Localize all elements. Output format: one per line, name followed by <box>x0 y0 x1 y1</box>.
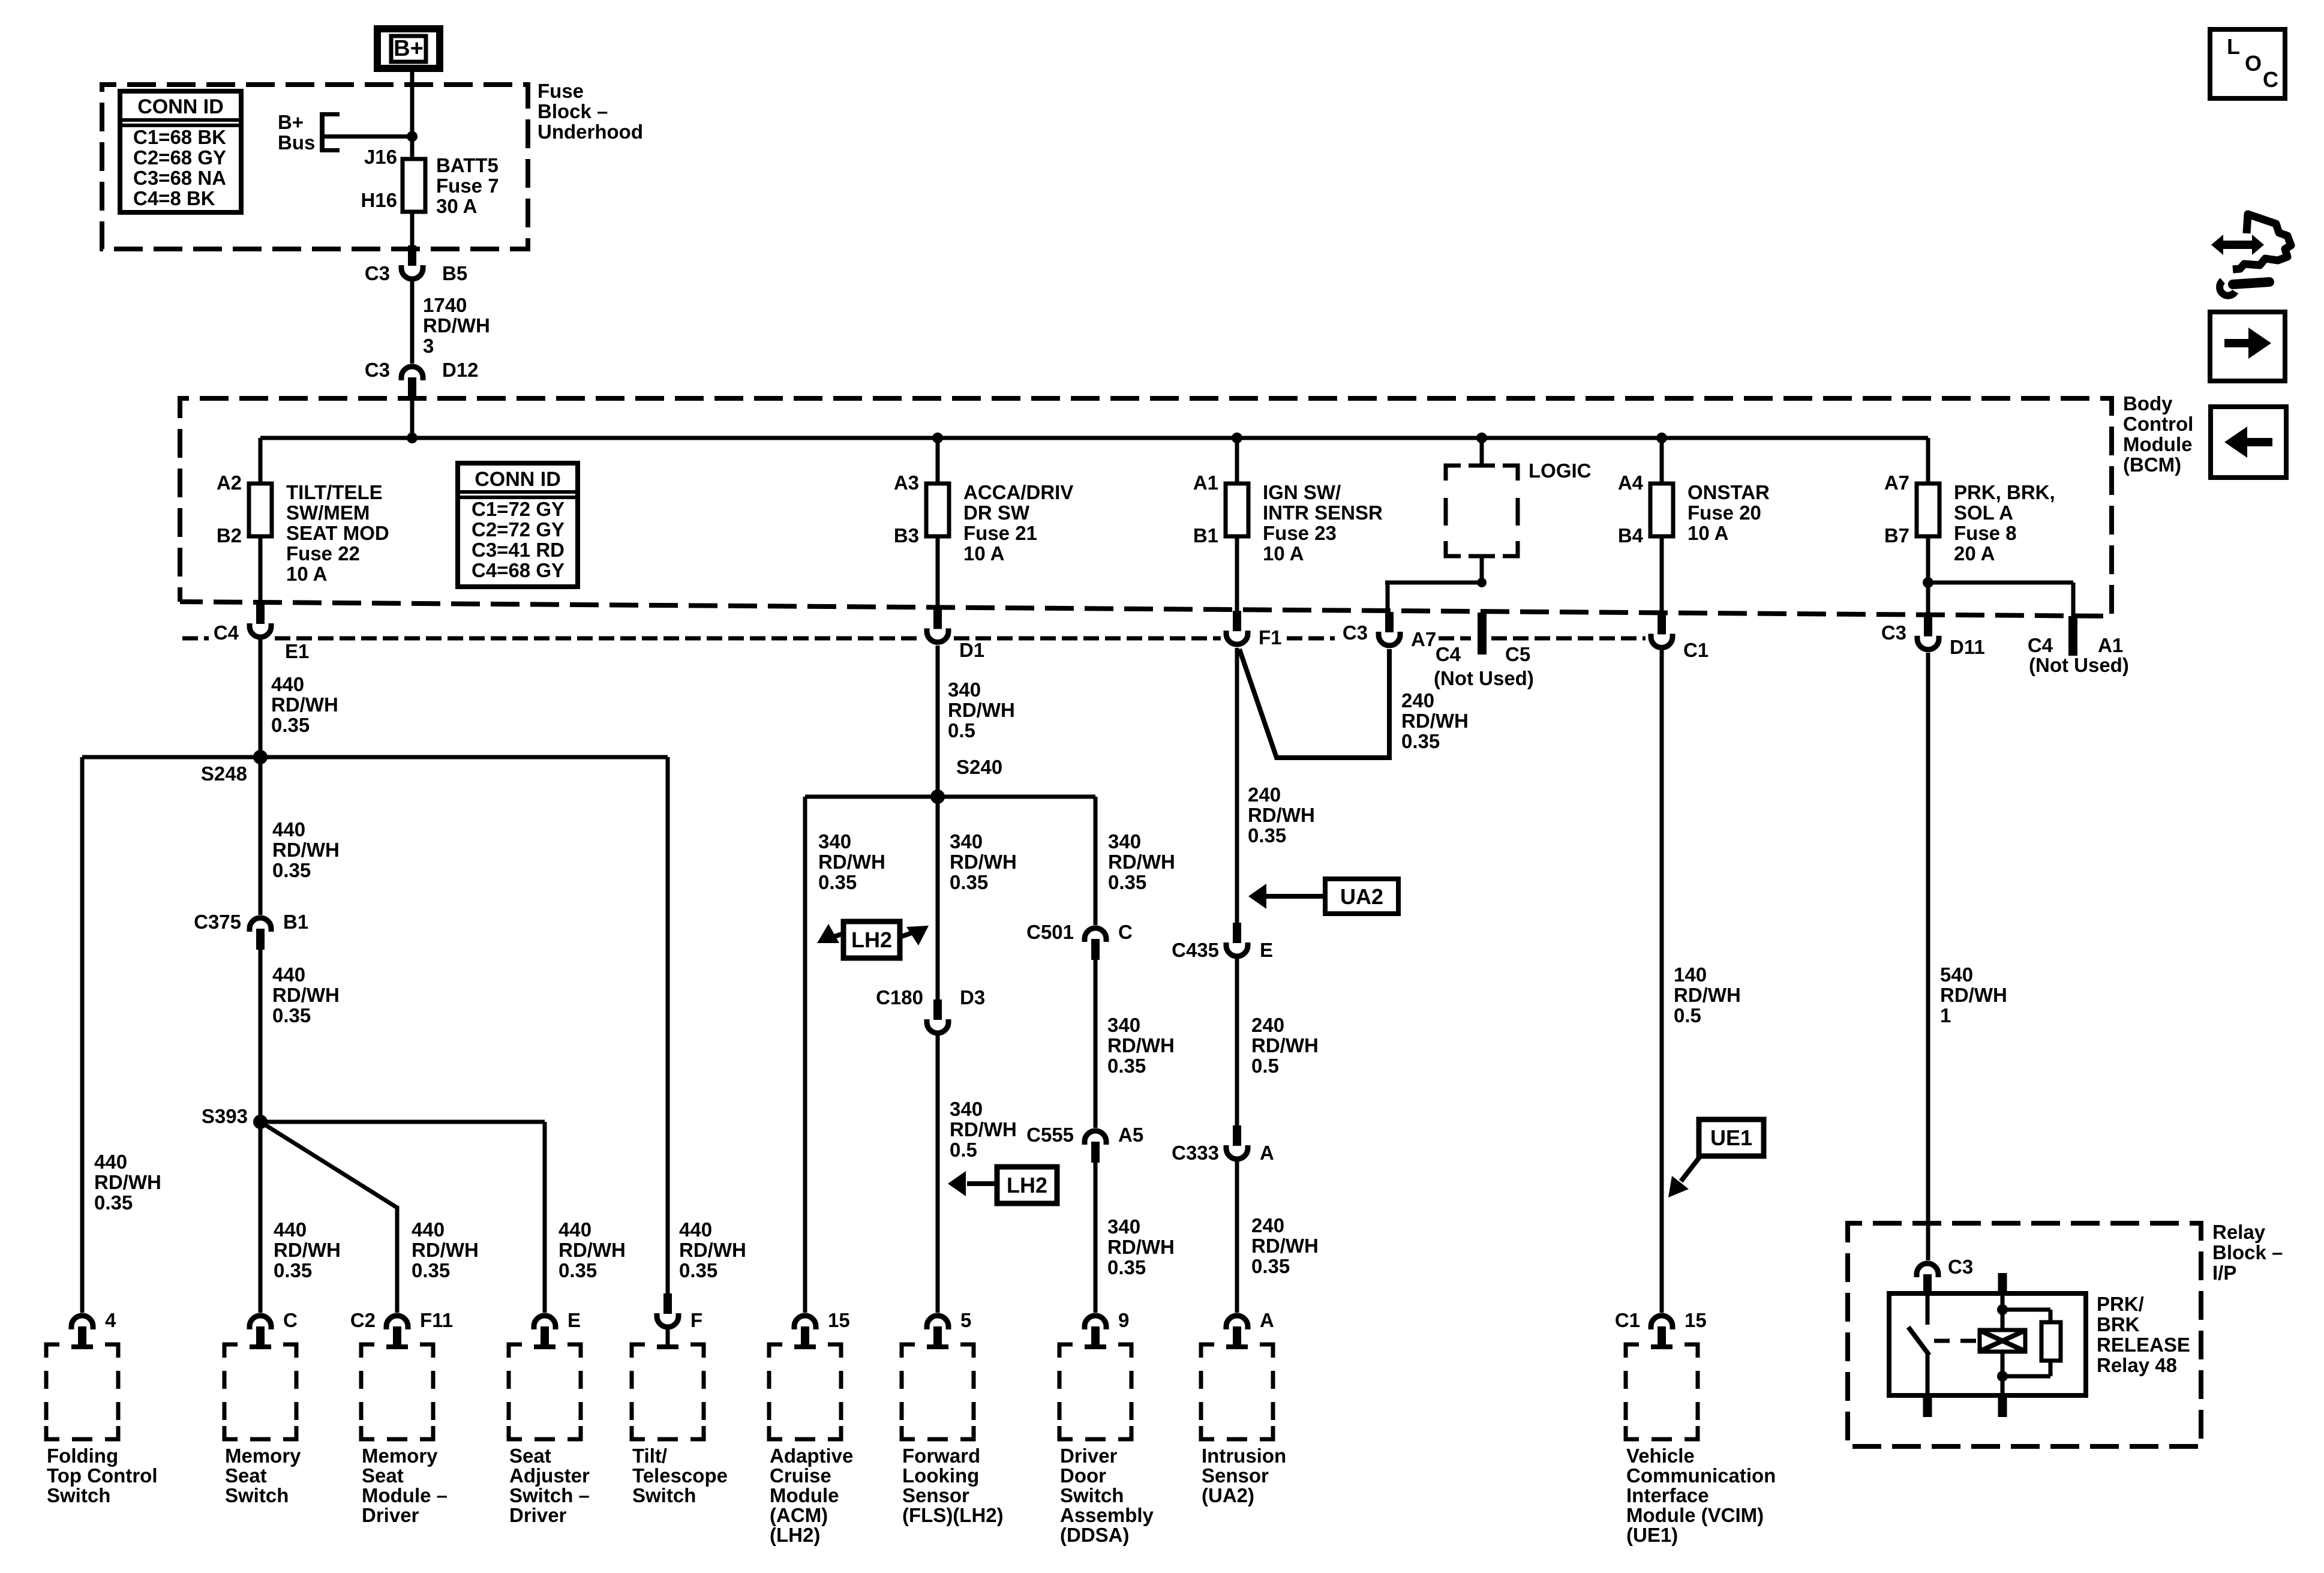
svg-text:340: 340 <box>1108 830 1141 852</box>
svg-text:0.35: 0.35 <box>950 871 988 893</box>
S248 horizontal wire <box>82 755 668 760</box>
BCM label <box>2123 392 2193 476</box>
svg-text:0.35: 0.35 <box>679 1259 717 1281</box>
device box: Intrusion Sensor (UA2) <box>1201 1344 1214 1358</box>
svg-text:Telescope: Telescope <box>632 1464 728 1487</box>
svg-text:J16: J16 <box>364 146 397 168</box>
LH2 arrow to FLS wire <box>967 1181 997 1186</box>
svg-text:0.35: 0.35 <box>412 1259 450 1281</box>
circuit 140 RD/WH 0.5 <box>1674 963 1741 1026</box>
svg-text:ONSTAR: ONSTAR <box>1688 481 1770 503</box>
svg-text:RD/WH: RD/WH <box>818 851 885 873</box>
svg-text:RD/WH: RD/WH <box>1940 984 2007 1006</box>
fuse A3 name label <box>963 481 1073 565</box>
svg-text:C435: C435 <box>1172 939 1219 961</box>
svg-text:C3: C3 <box>365 359 390 381</box>
svg-text:C: C <box>2263 67 2278 92</box>
svg-text:340: 340 <box>1107 1014 1140 1036</box>
svg-text:240: 240 <box>1248 784 1281 806</box>
connector C3 pin B5 <box>401 245 423 279</box>
relay coil junction bottom <box>1997 1371 2008 1382</box>
svg-text:RD/WH: RD/WH <box>1674 984 1741 1006</box>
box top dash under pin <box>71 1344 93 1349</box>
device name: Tilt/ Telescope Switch <box>632 1445 728 1506</box>
svg-text:RD/WH: RD/WH <box>423 314 490 337</box>
connector C333 pin A <box>1226 1125 1248 1159</box>
svg-text:S248: S248 <box>201 763 247 785</box>
svg-text:3: 3 <box>423 335 434 357</box>
svg-text:0.5: 0.5 <box>1674 1004 1701 1026</box>
B+ bus label and tap bracket <box>278 111 340 154</box>
device box: Vehicle Communication Interface Module (VCIM) (UE1) <box>1626 1344 1639 1358</box>
svg-text:RD/WH: RD/WH <box>272 984 340 1006</box>
svg-text:Switch: Switch <box>47 1484 110 1506</box>
wire C435 to C333 <box>1235 959 1239 1127</box>
svg-text:Bus: Bus <box>278 131 315 154</box>
svg-text:(LH2): (LH2) <box>770 1524 820 1546</box>
LH2 destination box (ACM) <box>843 921 900 958</box>
svg-text:RD/WH: RD/WH <box>950 1118 1017 1140</box>
svg-text:H16: H16 <box>361 189 397 211</box>
svg-text:A: A <box>1260 1142 1274 1164</box>
BCM output connector pin C1 <box>1651 614 1673 647</box>
svg-text:C5: C5 <box>1505 643 1530 665</box>
svg-text:Module –: Module – <box>362 1484 448 1506</box>
svg-text:SW/MEM: SW/MEM <box>286 502 370 524</box>
wire B+ bus to fuse <box>322 134 412 139</box>
relay block label <box>2212 1221 2283 1284</box>
svg-text:0.35: 0.35 <box>274 1259 312 1281</box>
svg-text:C333: C333 <box>1172 1142 1219 1164</box>
BCM connector dashed row <box>182 637 209 641</box>
svg-text:RD/WH: RD/WH <box>1251 1034 1319 1056</box>
svg-text:0.35: 0.35 <box>1401 730 1440 752</box>
svg-text:0.35: 0.35 <box>559 1259 597 1281</box>
wire to ACM <box>803 797 807 1313</box>
UA2 arrow <box>1266 894 1325 899</box>
svg-text:340: 340 <box>948 679 981 701</box>
wire fuse B3 down <box>936 536 940 610</box>
device connector pin E (Seat Adjuster Switch – Driver) <box>534 1316 556 1347</box>
device connector pin F (Tilt/ Telescope Switch) <box>657 1293 678 1327</box>
svg-text:B1: B1 <box>1193 524 1218 547</box>
fuse A4 name label <box>1688 481 1770 544</box>
svg-text:440: 440 <box>272 963 305 986</box>
circuit 440 RD/WH 0.35 (S248-C375) <box>272 818 340 881</box>
circuit 240 RD/WH 0.35 (F1) <box>1248 784 1315 846</box>
svg-text:C3: C3 <box>1343 622 1368 644</box>
svg-text:340: 340 <box>1107 1215 1140 1238</box>
svg-text:(Not Used): (Not Used) <box>2029 654 2129 676</box>
B+ battery feed symbol <box>377 29 440 68</box>
svg-text:4: 4 <box>105 1309 116 1331</box>
svg-text:RD/WH: RD/WH <box>1107 1236 1175 1258</box>
svg-text:D3: D3 <box>960 986 985 1008</box>
svg-text:(BCM): (BCM) <box>2123 454 2181 476</box>
svg-text:440: 440 <box>679 1218 712 1241</box>
back arrow box <box>2211 407 2286 478</box>
wire from B+ down <box>410 68 415 159</box>
svg-text:C501: C501 <box>1026 921 1074 943</box>
svg-text:L: L <box>2227 34 2240 59</box>
device connector pin 15 (Adaptive Cruise Module (ACM) (LH2)) <box>794 1316 816 1347</box>
svg-text:C555: C555 <box>1026 1124 1074 1146</box>
fuse block underhood enclosure <box>102 85 528 249</box>
svg-text:C2: C2 <box>350 1309 376 1331</box>
splice S248 <box>253 750 268 764</box>
svg-text:Fuse 22: Fuse 22 <box>286 542 360 565</box>
bus junction dots <box>407 433 418 443</box>
svg-text:B1: B1 <box>283 911 308 933</box>
relay coil column <box>2001 1293 2005 1395</box>
circuit 540 RD/WH 1 <box>1940 963 2007 1026</box>
svg-text:340: 340 <box>818 830 851 852</box>
svg-text:C: C <box>283 1309 298 1331</box>
relay coil link dashes <box>1934 1339 1978 1343</box>
LOC reference box <box>2210 29 2285 98</box>
svg-text:0.35: 0.35 <box>272 1004 311 1026</box>
box top dash under pin <box>927 1344 948 1349</box>
wire F1 down <box>1235 648 1239 924</box>
svg-text:10 A: 10 A <box>963 542 1004 565</box>
circuit 340 RD/WH 0.35 <box>1107 1014 1175 1077</box>
circuit 340 RD/WH 0.35 labels under S240 <box>818 830 885 893</box>
box top dash under pin <box>250 1344 271 1349</box>
relay switch blade <box>1908 1327 1929 1355</box>
svg-text:Seat: Seat <box>225 1464 267 1487</box>
box top dash under pin <box>1226 1344 1248 1349</box>
connector C3 pin D12 <box>401 367 423 398</box>
device connector pin 15 (Vehicle Communication Interface Module (VCIM) (UE1)) <box>1651 1316 1673 1347</box>
wire D1 to S240 <box>936 646 940 797</box>
LH2 left arrow <box>833 933 843 937</box>
device name: Forward Looking Sensor (FLS)(LH2) <box>902 1445 1004 1526</box>
wire bus to fuse A1 <box>1235 438 1239 484</box>
box top dash under pin <box>794 1344 816 1349</box>
svg-text:DR SW: DR SW <box>963 502 1030 524</box>
circuit 1740 RD/WH 3 label <box>423 294 490 357</box>
connector C555 pin A5 <box>1085 1131 1106 1163</box>
svg-text:Communication: Communication <box>1626 1464 1776 1487</box>
vehicle service icon <box>2211 214 2291 296</box>
svg-text:Fuse 7: Fuse 7 <box>436 175 499 197</box>
connector C375 pin B1 <box>250 918 271 950</box>
svg-text:Vehicle: Vehicle <box>1626 1445 1695 1467</box>
UE1 destination box <box>1699 1119 1764 1156</box>
svg-text:Fuse 20: Fuse 20 <box>1688 502 1761 524</box>
svg-text:440: 440 <box>94 1151 127 1173</box>
svg-text:5: 5 <box>960 1309 971 1331</box>
device box: Tilt/ Telescope Switch <box>632 1344 645 1358</box>
svg-text:Assembly: Assembly <box>1060 1504 1154 1526</box>
svg-text:E: E <box>1260 939 1273 961</box>
wire C375 to S393 <box>259 947 263 1122</box>
svg-text:C180: C180 <box>876 986 923 1008</box>
svg-text:C3=68 NA: C3=68 NA <box>133 167 226 189</box>
svg-text:Module: Module <box>2123 433 2192 455</box>
svg-text:Tilt/: Tilt/ <box>632 1445 667 1467</box>
junction on A7 column <box>1923 577 1933 588</box>
svg-text:540: 540 <box>1940 963 1973 986</box>
svg-text:(DDSA): (DDSA) <box>1060 1524 1129 1546</box>
svg-text:C3: C3 <box>1948 1256 1973 1278</box>
device box: Adaptive Cruise Module (ACM) (LH2) <box>769 1344 782 1358</box>
svg-text:C1: C1 <box>1683 639 1709 661</box>
BCM output connector pin D1 <box>927 608 948 642</box>
svg-text:C3: C3 <box>365 262 390 284</box>
circuit 440 RD/WH 0.35 labels <box>274 1218 341 1281</box>
svg-text:Memory: Memory <box>225 1445 301 1467</box>
svg-text:0.35: 0.35 <box>1107 1256 1146 1278</box>
fuse A2 name label <box>286 481 389 585</box>
svg-text:C375: C375 <box>194 911 241 933</box>
LH2 destination box (FLS) <box>997 1167 1057 1203</box>
svg-text:IGN SW/: IGN SW/ <box>1263 481 1341 503</box>
svg-text:Switch: Switch <box>225 1484 289 1506</box>
connector ID table (BCM) <box>458 463 578 587</box>
svg-text:RD/WH: RD/WH <box>412 1239 479 1261</box>
svg-text:10 A: 10 A <box>1263 542 1304 565</box>
svg-text:C4: C4 <box>214 622 239 644</box>
fuse Fuse 22 (TILT/TELE, SW/MEM, SEAT MOD) <box>249 484 272 536</box>
svg-text:15: 15 <box>828 1309 850 1331</box>
svg-text:B7: B7 <box>1884 524 1909 547</box>
device name: Memory Seat Switch <box>225 1445 301 1506</box>
wire F1 diagonal to A7 loop <box>1239 649 1389 758</box>
svg-text:440: 440 <box>274 1218 307 1241</box>
BCM output connector pin A7 <box>1379 612 1400 646</box>
not-used pin stub C5 <box>1478 613 1487 655</box>
svg-text:C4=8 BK: C4=8 BK <box>133 187 215 209</box>
wire fuse B4 down <box>1660 536 1664 615</box>
svg-text:RD/WH: RD/WH <box>274 1239 341 1261</box>
relay switch bottom stub <box>1923 1395 1932 1417</box>
svg-text:A5: A5 <box>1118 1124 1143 1146</box>
svg-text:C2=72 GY: C2=72 GY <box>472 518 565 541</box>
svg-text:B4: B4 <box>1618 524 1644 547</box>
svg-text:Relay 48: Relay 48 <box>2097 1354 2177 1376</box>
svg-text:B+: B+ <box>394 36 424 61</box>
not-used pin stub A1 <box>2068 616 2077 656</box>
svg-text:C1=68 BK: C1=68 BK <box>133 126 226 148</box>
svg-text:Block –: Block – <box>538 100 608 122</box>
device box: Memory Seat Switch <box>224 1344 238 1358</box>
svg-text:Switch: Switch <box>632 1484 696 1506</box>
svg-text:Block –: Block – <box>2212 1241 2283 1263</box>
device connector pin 9 (Driver Door Switch Assembly (DDSA)) <box>1085 1316 1106 1347</box>
svg-text:240: 240 <box>1401 689 1434 712</box>
svg-text:E1: E1 <box>285 640 309 662</box>
svg-text:240: 240 <box>1251 1014 1284 1036</box>
svg-text:Driver: Driver <box>509 1504 567 1526</box>
relay outline <box>1889 1293 2086 1395</box>
relay coil junction top <box>1997 1304 2008 1315</box>
svg-text:340: 340 <box>950 830 983 852</box>
circuit 240 RD/WH 0.35 (A7) <box>1401 689 1469 752</box>
svg-text:RD/WH: RD/WH <box>950 851 1017 873</box>
svg-text:S393: S393 <box>202 1105 248 1127</box>
relay switch top wire <box>1926 1293 1930 1325</box>
svg-text:Adjuster: Adjuster <box>509 1464 590 1487</box>
svg-text:Folding: Folding <box>47 1445 118 1467</box>
wire fuse B7 down <box>1926 536 1930 617</box>
LOGIC block <box>1446 464 1518 559</box>
fuse A1 name label <box>1263 481 1383 565</box>
relay 48 name label <box>2097 1293 2190 1376</box>
box top dash under pin <box>386 1344 408 1349</box>
svg-text:C2=68 GY: C2=68 GY <box>133 146 226 169</box>
device box: Folding Top Control Switch <box>46 1344 59 1358</box>
svg-text:RD/WH: RD/WH <box>94 1171 161 1193</box>
svg-text:(ACM): (ACM) <box>770 1504 828 1526</box>
device name: Vehicle Communication Interface Module (VCIM) (UE1) <box>1626 1445 1776 1546</box>
svg-text:20 A: 20 A <box>1954 542 1995 565</box>
svg-text:TILT/TELE: TILT/TELE <box>286 481 383 503</box>
svg-text:UA2: UA2 <box>1340 884 1383 909</box>
BCM output connector pin D11 <box>1917 616 1939 650</box>
device box: Forward Looking Sensor (FLS)(LH2) <box>902 1344 915 1358</box>
svg-text:RD/WH: RD/WH <box>559 1239 626 1261</box>
splice S393 <box>253 1115 268 1129</box>
Body Control Module enclosure <box>180 398 2112 616</box>
wire C555 down <box>1094 1161 1098 1313</box>
svg-text:Driver: Driver <box>1060 1445 1118 1467</box>
svg-text:10 A: 10 A <box>286 563 327 585</box>
svg-text:Fuse: Fuse <box>538 80 584 102</box>
svg-text:B2: B2 <box>217 524 242 547</box>
wire bus to fuse A2 <box>259 438 263 484</box>
svg-text:440: 440 <box>412 1218 445 1241</box>
svg-text:Door: Door <box>1060 1464 1106 1487</box>
svg-text:Cruise: Cruise <box>770 1464 831 1487</box>
svg-text:S240: S240 <box>956 756 1002 778</box>
forward arrow box <box>2210 312 2285 381</box>
svg-text:A3: A3 <box>894 472 919 494</box>
svg-text:RD/WH: RD/WH <box>679 1239 746 1261</box>
svg-text:RD/WH: RD/WH <box>1251 1235 1319 1257</box>
device name: Folding Top Control Switch <box>47 1445 158 1506</box>
svg-text:(UE1): (UE1) <box>1626 1524 1678 1546</box>
wire S393 to seat adjuster <box>260 1120 545 1124</box>
svg-text:B3: B3 <box>894 524 919 547</box>
device name: Driver Door Switch Assembly (DDSA) <box>1060 1445 1154 1546</box>
svg-text:Fuse 23: Fuse 23 <box>1263 522 1337 544</box>
wire to FLS <box>936 797 940 1001</box>
svg-text:0.35: 0.35 <box>271 714 310 736</box>
svg-text:C4: C4 <box>2028 634 2053 656</box>
svg-text:RD/WH: RD/WH <box>1401 710 1469 732</box>
device box: Memory Seat Module – Driver <box>361 1344 374 1358</box>
svg-text:10 A: 10 A <box>1688 522 1728 544</box>
svg-text:CONN ID: CONN ID <box>475 468 561 491</box>
wire bus to fuse A7 <box>1926 438 1930 484</box>
wire bus to fuse A4 <box>1660 438 1664 484</box>
svg-text:Looking: Looking <box>902 1464 979 1487</box>
svg-text:SOL A: SOL A <box>1954 502 2013 524</box>
connector C435 pin E <box>1226 923 1248 956</box>
relay resistor <box>2041 1322 2061 1361</box>
svg-text:0.5: 0.5 <box>950 1139 977 1161</box>
BCM internal B+ bus wire <box>260 436 1928 440</box>
svg-text:RELEASE: RELEASE <box>2097 1334 2190 1356</box>
svg-text:Sensor: Sensor <box>902 1484 969 1506</box>
svg-text:PRK, BRK,: PRK, BRK, <box>1954 481 2055 503</box>
svg-text:240: 240 <box>1251 1214 1284 1236</box>
wire tilt branch <box>666 757 670 1295</box>
fuse Fuse 23 (IGN SW/, INTR SENSR) <box>1226 484 1248 536</box>
svg-text:LOGIC: LOGIC <box>1529 460 1592 482</box>
svg-text:B+: B+ <box>278 111 304 133</box>
svg-text:SEAT MOD: SEAT MOD <box>286 522 389 544</box>
fuse Fuse 21 (ACCA/DRIV, DR SW) <box>926 484 949 536</box>
BCM output connector pin F1 <box>1226 611 1248 644</box>
wire S393 diagonal to module <box>260 1122 397 1208</box>
svg-text:0.35: 0.35 <box>1248 824 1286 846</box>
svg-text:0.5: 0.5 <box>948 719 975 742</box>
svg-text:Forward: Forward <box>902 1445 980 1467</box>
svg-text:A7: A7 <box>1884 472 1909 494</box>
svg-text:CONN ID: CONN ID <box>137 95 224 118</box>
circuit 240 RD/WH 0.5 <box>1251 1014 1319 1077</box>
device connector pin 5 (Forward Looking Sensor (FLS)(LH2)) <box>927 1316 948 1347</box>
svg-text:Switch –: Switch – <box>509 1484 590 1506</box>
svg-text:Adaptive: Adaptive <box>770 1445 853 1467</box>
relay block enclosure <box>1848 1223 2201 1446</box>
wire to A7 pin <box>1386 583 1390 613</box>
UE1 arrow <box>1681 1157 1700 1181</box>
svg-text:Module (VCIM): Module (VCIM) <box>1626 1504 1764 1526</box>
circuit 440 RD/WH 0.35 (E1) <box>271 673 338 736</box>
wire fuse B1 down <box>1235 536 1239 612</box>
svg-text:RD/WH: RD/WH <box>1248 804 1315 826</box>
device connector pin 4 (Folding Top Control Switch) <box>71 1316 93 1347</box>
box top dash under pin <box>1651 1344 1673 1349</box>
circuit 240 RD/WH 0.35 <box>1251 1214 1319 1277</box>
svg-text:0.5: 0.5 <box>1251 1055 1279 1077</box>
svg-text:440: 440 <box>271 673 304 695</box>
svg-text:440: 440 <box>559 1218 591 1241</box>
svg-text:LH2: LH2 <box>851 927 892 952</box>
svg-text:A: A <box>1260 1309 1274 1331</box>
svg-text:A1: A1 <box>2098 634 2123 656</box>
svg-text:E: E <box>568 1309 581 1331</box>
wire to DDSA <box>1094 797 1098 925</box>
svg-text:D12: D12 <box>442 359 479 381</box>
svg-text:(Not Used): (Not Used) <box>1434 667 1534 689</box>
svg-text:BATT5: BATT5 <box>436 154 499 176</box>
fuse Fuse 8 (PRK, BRK,, SOL A) <box>1917 484 1939 536</box>
svg-text:Intrusion: Intrusion <box>1202 1445 1286 1467</box>
fuse Fuse 20 (ONSTAR) <box>1650 484 1673 536</box>
circuit 440 RD/WH 0.35 (C375-S393) <box>272 963 340 1026</box>
svg-text:0.35: 0.35 <box>272 859 311 881</box>
svg-text:A2: A2 <box>217 472 242 494</box>
svg-text:PRK/: PRK/ <box>2097 1293 2144 1315</box>
svg-text:Seat: Seat <box>362 1464 404 1487</box>
wire D12 to bus <box>410 396 415 438</box>
svg-text:0.35: 0.35 <box>1251 1255 1290 1277</box>
svg-text:Fuse 21: Fuse 21 <box>963 522 1037 544</box>
relay switch bottom wire <box>1926 1354 1930 1395</box>
relay coil top stub <box>1998 1273 2007 1295</box>
wire C501 to C555 <box>1094 958 1098 1128</box>
svg-text:Module: Module <box>770 1484 839 1506</box>
svg-text:340: 340 <box>950 1098 983 1120</box>
LH2 right arrow <box>900 933 912 937</box>
device box: Seat Adjuster Switch – Driver <box>509 1344 522 1358</box>
svg-text:RD/WH: RD/WH <box>272 839 340 861</box>
svg-text:440: 440 <box>272 818 305 840</box>
